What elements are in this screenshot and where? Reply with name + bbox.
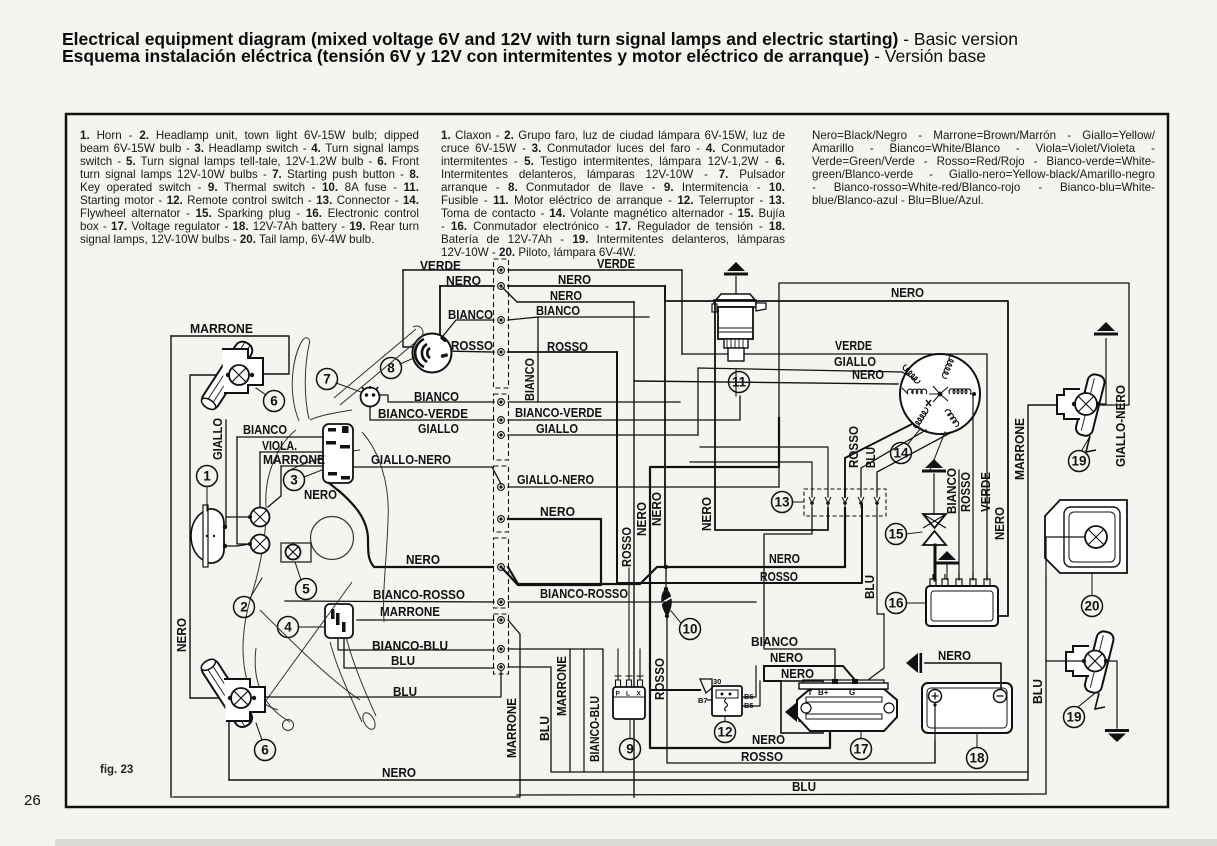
- leader 1: [206, 487, 208, 511]
- wire GIALLO to alternator: [698, 368, 902, 435]
- svg-text:G: G: [849, 688, 855, 697]
- svg-text:BLU: BLU: [537, 716, 552, 741]
- svg-text:2: 2: [240, 600, 248, 615]
- wire horn lower link: [225, 544, 250, 546]
- wire MARRONE box: [171, 336, 289, 374]
- wire VERDE right: [508, 270, 682, 354]
- page bottom scan shadow: [55, 839, 1217, 846]
- lamp6 bottom right contact: [252, 696, 256, 700]
- wire NERO right row1: [508, 285, 665, 287]
- circle 6 top: [264, 391, 285, 412]
- svg-text:Flywheel alternator - 15. Spar: Flywheel alternator - 15. Sparking plug …: [80, 207, 419, 220]
- wire lamp19b ground: [1106, 661, 1117, 728]
- wire NERO vertical 634: [633, 302, 635, 797]
- leader 10: [671, 611, 681, 623]
- wire ROSSO main: [617, 352, 862, 583]
- svg-text:19: 19: [1066, 710, 1081, 725]
- svg-text:MARRONE: MARRONE: [380, 604, 440, 619]
- wire BLU pin5 down: [877, 508, 884, 614]
- svg-text:BIANCO: BIANCO: [944, 468, 959, 514]
- wire NERO key switch: [440, 285, 494, 287]
- key operated switch 8: [413, 334, 452, 373]
- circle 7: [317, 369, 338, 390]
- wire B6 right: [747, 666, 756, 697]
- svg-text:10: 10: [682, 622, 697, 637]
- headlamp 2 circle: [311, 517, 354, 560]
- leader 7: [336, 383, 361, 392]
- svg-text:1: 1: [203, 469, 211, 484]
- leader 4: [298, 626, 324, 628]
- svg-text:arranque - 8. Conmutador de ll: arranque - 8. Conmutador de llave - 9. I…: [441, 181, 785, 194]
- wire BIANCO-ROSSO left: [285, 601, 494, 602]
- wire NERO into 17: [764, 666, 855, 680]
- turn signal tell-tale bulb a: [251, 508, 270, 527]
- svg-text:green/Blanco-verde - Giallo-ne: green/Blanco-verde - Giallo-nero=Yellow-…: [812, 168, 1155, 181]
- leader 9: [629, 719, 631, 738]
- svg-text:NERO: NERO: [550, 288, 582, 303]
- connector pin BIANCO-BLU y=649: [498, 646, 505, 653]
- wire BIANCO-VERDE left: [370, 406, 494, 420]
- svg-text:ROSSO: ROSSO: [451, 338, 493, 353]
- wire BIANCO-ROSSO right: [508, 601, 756, 603]
- svg-text:VERDE: VERDE: [420, 258, 461, 273]
- wire NERO rail left: [170, 336, 172, 797]
- wire ROSSO fuse to battery: [667, 616, 935, 763]
- svg-text:GIALLO: GIALLO: [210, 418, 225, 460]
- wire alternator BLU down: [877, 433, 950, 497]
- fuse 10: [660, 587, 672, 618]
- wire motor stem: [735, 370, 737, 396]
- small ground near 16: [946, 562, 948, 580]
- wire MARRONE to switch: [281, 465, 323, 467]
- svg-text:15: 15: [888, 527, 904, 542]
- svg-text:fig. 23: fig. 23: [100, 764, 133, 776]
- svg-text:Intermitentes delanteros, lámp: Intermitentes delanteros, lámparas 12V-1…: [441, 168, 785, 181]
- svg-text:12: 12: [717, 725, 732, 740]
- wire MARRONE drop: [268, 466, 281, 507]
- horn contact upper: [223, 525, 227, 529]
- svg-text:NERO: NERO: [540, 504, 575, 519]
- svg-text:NERO: NERO: [382, 765, 416, 780]
- wire VERDE key switch: [403, 269, 494, 271]
- starting motor 11: [712, 294, 766, 361]
- wire lamp6b riser: [228, 698, 230, 780]
- wire BLU pin right: [508, 667, 1028, 772]
- connector pin BLU y=667: [498, 664, 505, 671]
- svg-text:ROSSO: ROSSO: [619, 527, 634, 567]
- svg-text:VERDE: VERDE: [597, 256, 635, 271]
- ground stub 16: [935, 551, 959, 565]
- bulb a left contact: [248, 515, 252, 519]
- bulb 20: [1085, 526, 1107, 548]
- svg-text:cruce 6V-15W - 3. Conmutador l: cruce 6V-15W - 3. Conmutador luces del f…: [441, 142, 785, 155]
- svg-text:BIANCO-ROSSO: BIANCO-ROSSO: [540, 586, 628, 601]
- svg-text:B+: B+: [818, 688, 829, 697]
- leader 15: [906, 532, 922, 534]
- bulb 6 top: [229, 365, 249, 385]
- circle 10: [680, 619, 701, 640]
- svg-text:GIALLO: GIALLO: [536, 421, 578, 436]
- svg-text:NERO: NERO: [938, 648, 971, 663]
- bulb 19 top: [1075, 393, 1097, 415]
- wire 13 pin1 up: [690, 462, 812, 497]
- svg-text:BIANCO: BIANCO: [536, 303, 580, 318]
- svg-text:ROSSO: ROSSO: [652, 658, 667, 700]
- svg-text:NERO: NERO: [852, 367, 884, 382]
- lamp19 bottom right contact: [1104, 659, 1108, 663]
- connector pin BIANCO-ROSSO y=602: [498, 599, 505, 606]
- 9 pin x=629: [626, 676, 633, 687]
- bulb b left contact: [248, 542, 252, 546]
- front turn signal lamp 6 top: [199, 339, 263, 413]
- lamp6 bottom left contact: [228, 696, 232, 700]
- wire ROSSO right: [508, 351, 617, 353]
- circle 16: [886, 593, 907, 614]
- leader 14b: [930, 432, 945, 470]
- wire plug thick: [934, 545, 937, 580]
- ground stem lamp19 top: [1105, 338, 1107, 390]
- leader 16: [906, 602, 925, 604]
- svg-text:GIALLO-NERO: GIALLO-NERO: [517, 472, 594, 487]
- leader 6 top: [256, 388, 266, 395]
- lamp6 top right contact: [250, 373, 254, 377]
- svg-text:GIALLO: GIALLO: [834, 354, 876, 369]
- leader 5: [295, 562, 301, 580]
- svg-text:5: 5: [302, 582, 310, 597]
- wire alternator NERO to pin3: [845, 424, 912, 497]
- circle 17: [851, 739, 872, 760]
- circle 8: [381, 358, 402, 379]
- svg-text:NERO: NERO: [174, 618, 189, 652]
- front turn signal lamp 6 bottom: [199, 656, 265, 730]
- wire tail lamp feed: [1046, 537, 1085, 576]
- handlebar headset outline: [243, 326, 423, 731]
- svg-text:signal lamps, 12V-10W bulbs -: signal lamps, 12V-10W bulbs - 20. Tail l…: [80, 233, 374, 246]
- svg-text:BLU: BLU: [792, 779, 816, 794]
- svg-text:NERO: NERO: [699, 497, 714, 531]
- wire BIANCO-BLU mid drop: [583, 649, 585, 772]
- wire VERDE drop to key switch: [403, 270, 415, 347]
- svg-text:ROSSO: ROSSO: [846, 426, 861, 468]
- wire BIANCO right: [508, 317, 649, 320]
- svg-text:BIANCO: BIANCO: [522, 358, 537, 401]
- horn 1: [191, 505, 224, 567]
- wire 9 P up: [617, 649, 619, 676]
- wire NERO right row2: [503, 288, 634, 302]
- circle 19 top: [1069, 451, 1090, 472]
- wire GIALLO-NERO right: [508, 486, 779, 488]
- svg-text:MARRONE: MARRONE: [504, 698, 519, 758]
- wire BIANCO right mid: [508, 401, 680, 403]
- svg-text:BLU: BLU: [863, 447, 878, 468]
- svg-text:NERO: NERO: [304, 487, 337, 502]
- ground above motor 11: [724, 262, 748, 276]
- wire NERO 17 short: [764, 666, 781, 681]
- frame ground arrow 17: [785, 702, 801, 722]
- connector pin ROSSO y=352: [498, 349, 505, 356]
- lamp19 bottom left contact: [1082, 659, 1086, 663]
- svg-text:VERDE: VERDE: [978, 472, 993, 512]
- wire BIANCO from button: [379, 395, 494, 402]
- svg-text:VIOLA.: VIOLA.: [262, 438, 297, 453]
- svg-text:BIANCO: BIANCO: [751, 634, 798, 649]
- tell-tale bulb 5: [286, 545, 301, 560]
- svg-text:1. Horn - 2. Headlamp unit, to: 1. Horn - 2. Headlamp unit, town light 6…: [80, 129, 419, 142]
- wire 13 pin2 up: [700, 447, 828, 497]
- leader 18: [976, 733, 978, 747]
- svg-text:L: L: [626, 691, 630, 698]
- svg-text:17: 17: [853, 742, 868, 757]
- wire NERO thick drop 665: [664, 286, 666, 567]
- svg-text:11: 11: [732, 375, 747, 390]
- svg-text:VERDE: VERDE: [835, 338, 872, 353]
- svg-text:X: X: [637, 691, 642, 698]
- wire MARRONE left: [357, 619, 494, 621]
- svg-text:NERO: NERO: [649, 492, 664, 526]
- connector pin GIALLO y=435: [498, 432, 505, 439]
- 9 pin x=640: [637, 676, 644, 687]
- svg-text:MARRONE: MARRONE: [190, 321, 253, 336]
- svg-text:1. Claxon - 2. Grupo faro, luz: 1. Claxon - 2. Grupo faro, luz de ciudad…: [441, 129, 785, 142]
- svg-text:NERO: NERO: [446, 273, 481, 288]
- wire MARRONE right drop: [173, 620, 520, 797]
- leader 8: [400, 358, 414, 364]
- svg-text:18: 18: [969, 751, 985, 766]
- svg-text:MARRONE: MARRONE: [263, 452, 325, 467]
- rear turn signal lamp 19 bottom: [1066, 630, 1115, 709]
- connector pin BIANCO y=320: [498, 317, 505, 324]
- svg-text:BIANCO-ROSSO: BIANCO-ROSSO: [373, 587, 465, 602]
- svg-text:Verde=Green/Verde - Rosso=Red/: Verde=Green/Verde - Rosso=Red/Rojo - Bia…: [812, 155, 1155, 168]
- connector 13 pin 3: [842, 497, 848, 508]
- lamp19 top right contact: [1096, 402, 1100, 406]
- svg-text:beam 6V-15W bulb - 3. Headlamp: beam 6V-15W bulb - 3. Headlamp switch - …: [80, 142, 419, 155]
- 16 pin x=973: [970, 574, 976, 586]
- wire plug upper: [933, 474, 935, 514]
- bulb 19 bottom: [1085, 651, 1106, 672]
- svg-text:NERO: NERO: [406, 552, 440, 567]
- svg-text:BLU: BLU: [1030, 679, 1045, 704]
- circle 11: [729, 372, 750, 393]
- svg-text:intermitentes - 5. Testigo int: intermitentes - 5. Testigo intermitentes…: [441, 155, 785, 168]
- tell-tale lamp 5 box: [281, 543, 311, 562]
- svg-text:NERO: NERO: [634, 502, 649, 536]
- wire 13 pin2 starter: [715, 301, 828, 530]
- svg-text:30: 30: [713, 677, 721, 686]
- wire NERO main right: [508, 567, 845, 584]
- circle 5: [296, 579, 317, 600]
- svg-text:ROSSO: ROSSO: [760, 569, 798, 584]
- 16 pin x=959: [956, 574, 962, 586]
- svg-text:GIALLO-NERO: GIALLO-NERO: [371, 452, 451, 467]
- remote control switch 12 flag: [700, 679, 712, 693]
- wire BIANCO col: [958, 470, 960, 580]
- svg-text:BIANCO-VERDE: BIANCO-VERDE: [378, 406, 468, 421]
- connector strip dashed boxes: [494, 259, 509, 388]
- wire BIANCO key switch: [443, 320, 494, 336]
- svg-text:Batería de 12V-7Ah - 19. Inter: Batería de 12V-7Ah - 19. Intermitentes d…: [441, 233, 785, 246]
- svg-text:Key operated switch - 9. Therm: Key operated switch - 9. Thermal switch …: [80, 181, 419, 194]
- svg-text:Amarillo - Bianco=White/Blanco: Amarillo - Bianco=White/Blanco - Viola=V…: [812, 142, 1155, 155]
- circle 18: [967, 748, 988, 769]
- connector pin NERO y=519: [498, 516, 505, 523]
- connector pin BIANCO-VERDE y=420: [498, 417, 505, 424]
- wire BLU long bottom: [517, 576, 1046, 795]
- leader 13: [792, 501, 804, 503]
- svg-text:20: 20: [1084, 599, 1099, 614]
- wire NERO thick 467: [650, 418, 830, 748]
- remote control switch 12: [698, 677, 754, 716]
- ground above lamp 19 top: [1094, 322, 1118, 336]
- wire B5 right: [747, 681, 760, 706]
- svg-text:Starting motor - 12. Remote co: Starting motor - 12. Remote control swit…: [80, 194, 419, 207]
- ground above spark plug: [922, 459, 946, 473]
- svg-text:ROSSO: ROSSO: [741, 749, 783, 764]
- frame ground arrow battery: [906, 653, 922, 673]
- wire GIALLO right: [508, 434, 698, 436]
- circle 20: [1082, 596, 1103, 617]
- svg-text:switch - 5. Turn signal lamps: switch - 5. Turn signal lamps tell-tale,…: [80, 155, 420, 168]
- wire BIANCO-VERDE right: [508, 396, 740, 420]
- circle 3: [284, 470, 305, 491]
- tail lamp 20: [1045, 500, 1127, 573]
- wire GIALLO branch bulb: [226, 516, 250, 518]
- circle 15: [886, 524, 907, 545]
- wire VERDE alternator: [682, 354, 987, 580]
- connector pin NERO y=567: [498, 564, 505, 571]
- connector 13 pin 1: [809, 497, 815, 508]
- circle 6 bottom: [255, 740, 276, 761]
- connector pin BIANCO y=402: [498, 399, 505, 406]
- svg-text:3: 3: [290, 473, 298, 488]
- svg-text:BIANCO: BIANCO: [448, 307, 493, 322]
- svg-text:BIANCO: BIANCO: [414, 389, 459, 404]
- connector 13 pin 5: [874, 497, 880, 508]
- connector 13 pin 2: [825, 497, 831, 508]
- wire lamp6a left: [190, 375, 230, 698]
- wire VIOLA to switch: [260, 451, 323, 453]
- svg-text:- Bianco-rosso=White-red/Blanc: - Bianco-rosso=White-red/Blanco-rojo - B…: [812, 181, 1155, 194]
- circle 19 bottom: [1064, 707, 1085, 728]
- wire arrow17 to regulator: [804, 711, 818, 713]
- wire GIALLO-NERO riser: [779, 283, 1129, 487]
- turn signal lamps switch 4: [325, 604, 353, 638]
- svg-text:Esquema instalación eléctrica: Esquema instalación eléctrica (tensión 6…: [62, 46, 986, 66]
- sparking plug 15: [923, 514, 946, 545]
- leader 2: [250, 578, 262, 598]
- svg-text:NERO: NERO: [558, 272, 591, 287]
- wire GIALLO-NERO from switch: [353, 467, 501, 484]
- wire NERO top long: [665, 286, 1008, 616]
- wire NERO bottom long: [229, 405, 1075, 780]
- leader 6 bottom: [256, 723, 262, 740]
- svg-text:B7: B7: [698, 696, 708, 705]
- svg-text:GIALLO-NERO: GIALLO-NERO: [1113, 385, 1128, 467]
- wire VIOLA drop: [259, 452, 261, 507]
- wire BLU branch lamp19: [1046, 660, 1084, 662]
- page border frame: [66, 114, 1168, 807]
- wire ROSSO battery plus: [934, 703, 936, 763]
- wire NERO stub switch: [329, 483, 340, 492]
- leader 14: [908, 428, 921, 444]
- wire 13 pin3 down thick: [844, 508, 846, 565]
- electronic control box 16: [926, 586, 998, 626]
- wire alternator right to ROSSO drop: [973, 394, 974, 580]
- horn contact lower: [223, 544, 227, 548]
- ground below lamp 19 bottom: [1105, 729, 1129, 742]
- svg-text:26: 26: [24, 792, 41, 809]
- wire 9 L up: [628, 568, 630, 676]
- svg-text:6: 6: [270, 394, 278, 409]
- svg-text:Toma de contacto - 14. Volante: Toma de contacto - 14. Volante magnético…: [441, 207, 786, 220]
- wire BIANCO branch down: [537, 317, 539, 402]
- wire BIANCO to switch: [237, 436, 323, 438]
- wire ROSSO key switch: [441, 351, 494, 352]
- svg-text:7: 7: [323, 372, 331, 387]
- svg-text:19: 19: [1071, 454, 1086, 469]
- leader 3: [304, 470, 322, 477]
- battery 18: [922, 683, 1012, 733]
- connector pin VERDE y=270: [498, 267, 505, 274]
- wire BIANCO-BLU right: [508, 649, 603, 772]
- wire BLU to G: [868, 614, 884, 680]
- lamp19 top left contact: [1072, 402, 1076, 406]
- svg-text:NERO: NERO: [752, 732, 785, 747]
- connector 13 dashed box: [804, 489, 886, 516]
- svg-text:BIANCO: BIANCO: [243, 422, 287, 437]
- thermal switch 9: [613, 687, 645, 719]
- svg-text:- 16. Conmutador electrónico -: - 16. Conmutador electrónico - 17. Regul…: [441, 220, 785, 233]
- wire GIALLO horn: [225, 420, 227, 527]
- svg-text:NERO: NERO: [770, 650, 803, 665]
- wire alternator ROSSO down: [861, 430, 926, 497]
- connector pin NERO y=286: [498, 283, 505, 290]
- 9 pin x=618: [615, 676, 622, 687]
- svg-text:ROSSO: ROSSO: [547, 339, 588, 354]
- turn signal tell-tale bulb b: [251, 535, 270, 554]
- svg-text:BIANCO-BLU: BIANCO-BLU: [587, 696, 602, 762]
- svg-text:box - 17. Voltage regulator -: box - 17. Voltage regulator - 18. 12V-7A…: [80, 220, 419, 233]
- svg-text:BIANCO-BLU: BIANCO-BLU: [372, 638, 448, 653]
- svg-text:6: 6: [261, 743, 269, 758]
- wire NERO right row3: [503, 519, 601, 585]
- svg-text:BIANCO-VERDE: BIANCO-VERDE: [515, 405, 602, 420]
- connector 13 pin 4: [858, 497, 864, 508]
- svg-text:ROSSO: ROSSO: [958, 472, 973, 512]
- frame box around arrow 17: [781, 681, 823, 733]
- headlamp switch 3: [323, 424, 353, 483]
- leader 17: [860, 731, 862, 738]
- svg-text:MARRONE: MARRONE: [1012, 418, 1027, 480]
- circle 9: [620, 739, 641, 760]
- svg-text:Nero=Black/Negro - Marrone=Bro: Nero=Black/Negro - Marrone=Brown/Marrón …: [812, 129, 1156, 142]
- lamp6 top left contact: [226, 373, 230, 377]
- wire NERO main thick curved: [338, 490, 494, 567]
- svg-text:16: 16: [888, 596, 904, 611]
- junction NERO fuse: [664, 565, 668, 569]
- wire BIANCO drop: [237, 437, 250, 544]
- svg-text:4: 4: [284, 620, 292, 635]
- leader 19 top: [1082, 438, 1089, 450]
- wire 9 X up: [639, 649, 641, 676]
- connector pin GIALLO-NERO y=487: [498, 484, 505, 491]
- svg-text:P: P: [616, 691, 621, 698]
- leader 19 bottom: [1078, 694, 1094, 707]
- svg-text:MARRONE: MARRONE: [554, 656, 569, 716]
- wire lamp6b feed: [254, 671, 501, 697]
- svg-text:BLU: BLU: [862, 575, 877, 599]
- motor ground stem: [735, 276, 737, 294]
